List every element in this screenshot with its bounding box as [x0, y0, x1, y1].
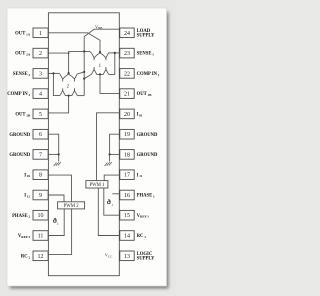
svg-text:SENSE 1: SENSE 1 [137, 52, 155, 57]
svg-text:19: 19 [124, 132, 130, 138]
svg-text:RC 2: RC 2 [21, 254, 31, 259]
svg-text:PWM 1: PWM 1 [89, 183, 105, 188]
svg-text:16: 16 [124, 193, 130, 199]
svg-text:4: 4 [39, 92, 42, 98]
svg-text:VREF 2: VREF 2 [18, 234, 31, 239]
svg-text:SENSE 2: SENSE 2 [13, 72, 31, 77]
svg-text:OUT 1A: OUT 1A [15, 31, 31, 36]
svg-text:11: 11 [38, 234, 44, 240]
svg-text:23: 23 [124, 51, 130, 57]
svg-text:12: 12 [38, 254, 44, 260]
svg-text:24: 24 [124, 31, 130, 37]
svg-text:OUT 1B: OUT 1B [137, 92, 153, 97]
svg-text:6: 6 [39, 132, 42, 138]
svg-text:18: 18 [124, 152, 130, 158]
svg-text:21: 21 [124, 92, 130, 98]
svg-text:PWM 2: PWM 2 [64, 204, 80, 209]
svg-text:PHASE 1: PHASE 1 [137, 194, 155, 199]
svg-text:I 02: I 02 [24, 173, 30, 178]
svg-text:13: 13 [124, 254, 130, 260]
svg-text:I 01: I 01 [137, 113, 143, 118]
svg-text:I 11: I 11 [137, 173, 143, 178]
svg-text:PHASE 2: PHASE 2 [12, 214, 30, 219]
svg-text:17: 17 [124, 173, 130, 179]
svg-text:15: 15 [124, 213, 130, 219]
svg-text:I 12: I 12 [24, 194, 30, 199]
svg-text:5: 5 [39, 112, 42, 118]
svg-text:COMP IN 2: COMP IN 2 [7, 92, 30, 97]
svg-text:OUT 2A: OUT 2A [15, 52, 31, 57]
svg-text:2: 2 [39, 51, 42, 57]
svg-text:SUPPLY: SUPPLY [137, 256, 155, 261]
svg-text:GROUND: GROUND [9, 133, 30, 138]
svg-text:OUT 2B: OUT 2B [15, 113, 31, 118]
svg-text:7: 7 [39, 152, 42, 158]
svg-text:9: 9 [39, 193, 42, 199]
svg-text:2: 2 [57, 222, 59, 226]
svg-text:20: 20 [124, 112, 130, 118]
svg-text:22: 22 [124, 71, 130, 77]
svg-text:GROUND: GROUND [137, 133, 158, 138]
svg-text:14: 14 [124, 234, 130, 240]
svg-text:SUPPLY: SUPPLY [137, 33, 155, 38]
svg-text:1: 1 [39, 31, 42, 37]
svg-text:GROUND: GROUND [9, 153, 30, 158]
svg-text:RC 1: RC 1 [137, 234, 147, 239]
svg-text:COMP IN 1: COMP IN 1 [137, 72, 160, 77]
svg-text:3: 3 [39, 71, 42, 77]
svg-text:8: 8 [39, 173, 42, 179]
svg-text:1: 1 [111, 203, 113, 207]
svg-text:GROUND: GROUND [137, 153, 158, 158]
svg-text:VREF 1: VREF 1 [137, 214, 150, 219]
svg-text:10: 10 [38, 213, 44, 219]
